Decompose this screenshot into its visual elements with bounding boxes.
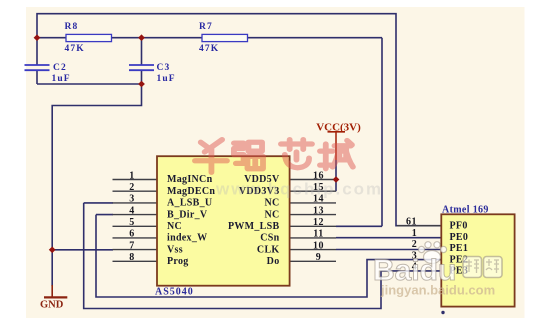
svg-text:A_LSB_U: A_LSB_U: [167, 198, 212, 209]
svg-text:CLK: CLK: [257, 244, 280, 255]
svg-text:2: 2: [129, 182, 135, 193]
svg-text:61: 61: [406, 217, 417, 228]
svg-text:1: 1: [129, 170, 135, 181]
svg-text:Vss: Vss: [167, 244, 183, 255]
svg-text:C2: C2: [53, 63, 67, 73]
svg-text:PE0: PE0: [450, 232, 469, 243]
svg-text:Prog: Prog: [167, 256, 189, 267]
svg-text:R8: R8: [65, 22, 79, 32]
svg-text:PF0: PF0: [450, 220, 468, 231]
svg-text:1uF: 1uF: [157, 74, 176, 84]
svg-text:B_Dir_V: B_Dir_V: [167, 209, 208, 220]
svg-text:10: 10: [313, 240, 324, 251]
svg-text:AS5040: AS5040: [155, 287, 194, 298]
svg-text:NC: NC: [264, 198, 279, 209]
svg-text:PWM_LSB: PWM_LSB: [228, 221, 280, 232]
svg-text:Atmel 169: Atmel 169: [442, 205, 489, 216]
svg-text:47K: 47K: [65, 44, 85, 54]
svg-text:CSn: CSn: [260, 233, 279, 244]
svg-text:MagINCn: MagINCn: [167, 174, 213, 185]
svg-text:1uF: 1uF: [52, 74, 71, 84]
svg-text:PE1: PE1: [450, 243, 469, 254]
svg-text:5: 5: [129, 217, 135, 228]
svg-text:VCC(3V): VCC(3V): [316, 122, 361, 134]
svg-text:Do: Do: [267, 256, 280, 267]
svg-text:2: 2: [412, 239, 418, 250]
svg-text:MagDECn: MagDECn: [167, 186, 215, 197]
svg-text:4: 4: [129, 205, 135, 216]
svg-text:GND: GND: [40, 299, 64, 310]
svg-text:11: 11: [313, 229, 323, 240]
svg-text:C3: C3: [157, 63, 171, 73]
svg-text:NC: NC: [167, 221, 182, 232]
svg-text:47K: 47K: [199, 44, 219, 54]
svg-text:12: 12: [313, 217, 324, 228]
svg-text:9: 9: [316, 252, 322, 263]
svg-text:6: 6: [129, 229, 135, 240]
svg-text:NC: NC: [264, 209, 279, 220]
svg-text:8: 8: [129, 252, 135, 263]
svg-text:jingyan.baidu.com: jingyan.baidu.com: [380, 283, 495, 298]
svg-text:R7: R7: [199, 22, 213, 32]
svg-text:13: 13: [313, 205, 324, 216]
svg-text:www.hqchip.com: www.hqchip.com: [215, 180, 383, 199]
svg-text:3: 3: [129, 194, 135, 205]
svg-text:7: 7: [129, 240, 135, 251]
svg-text:1: 1: [412, 228, 418, 239]
svg-text:index_W: index_W: [167, 233, 207, 244]
